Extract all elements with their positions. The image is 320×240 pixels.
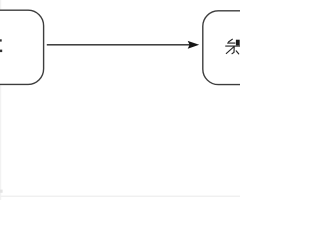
wire: arrow shaft box1 to box2 — [47, 44, 190, 46]
scan artifact: faint left edge line — [0, 0, 1, 200]
scan artifact: faint bottom rule — [0, 196, 240, 197]
arrowhead — [188, 41, 200, 49]
box 2 label glyph (hand-drawn CJK strokes) — [226, 39, 240, 54]
scan artifact: bottom-left speck — [0, 190, 3, 193]
box 1 label fragment (clipped glyph stroke ends) — [0, 39, 2, 52]
flowchart box 1 (left, clipped at left edge) — [0, 10, 44, 84]
flowchart box 2 (right, clipped at right edge) — [203, 11, 315, 85]
box 2 glyph: bold right component fragment — [236, 40, 240, 46]
